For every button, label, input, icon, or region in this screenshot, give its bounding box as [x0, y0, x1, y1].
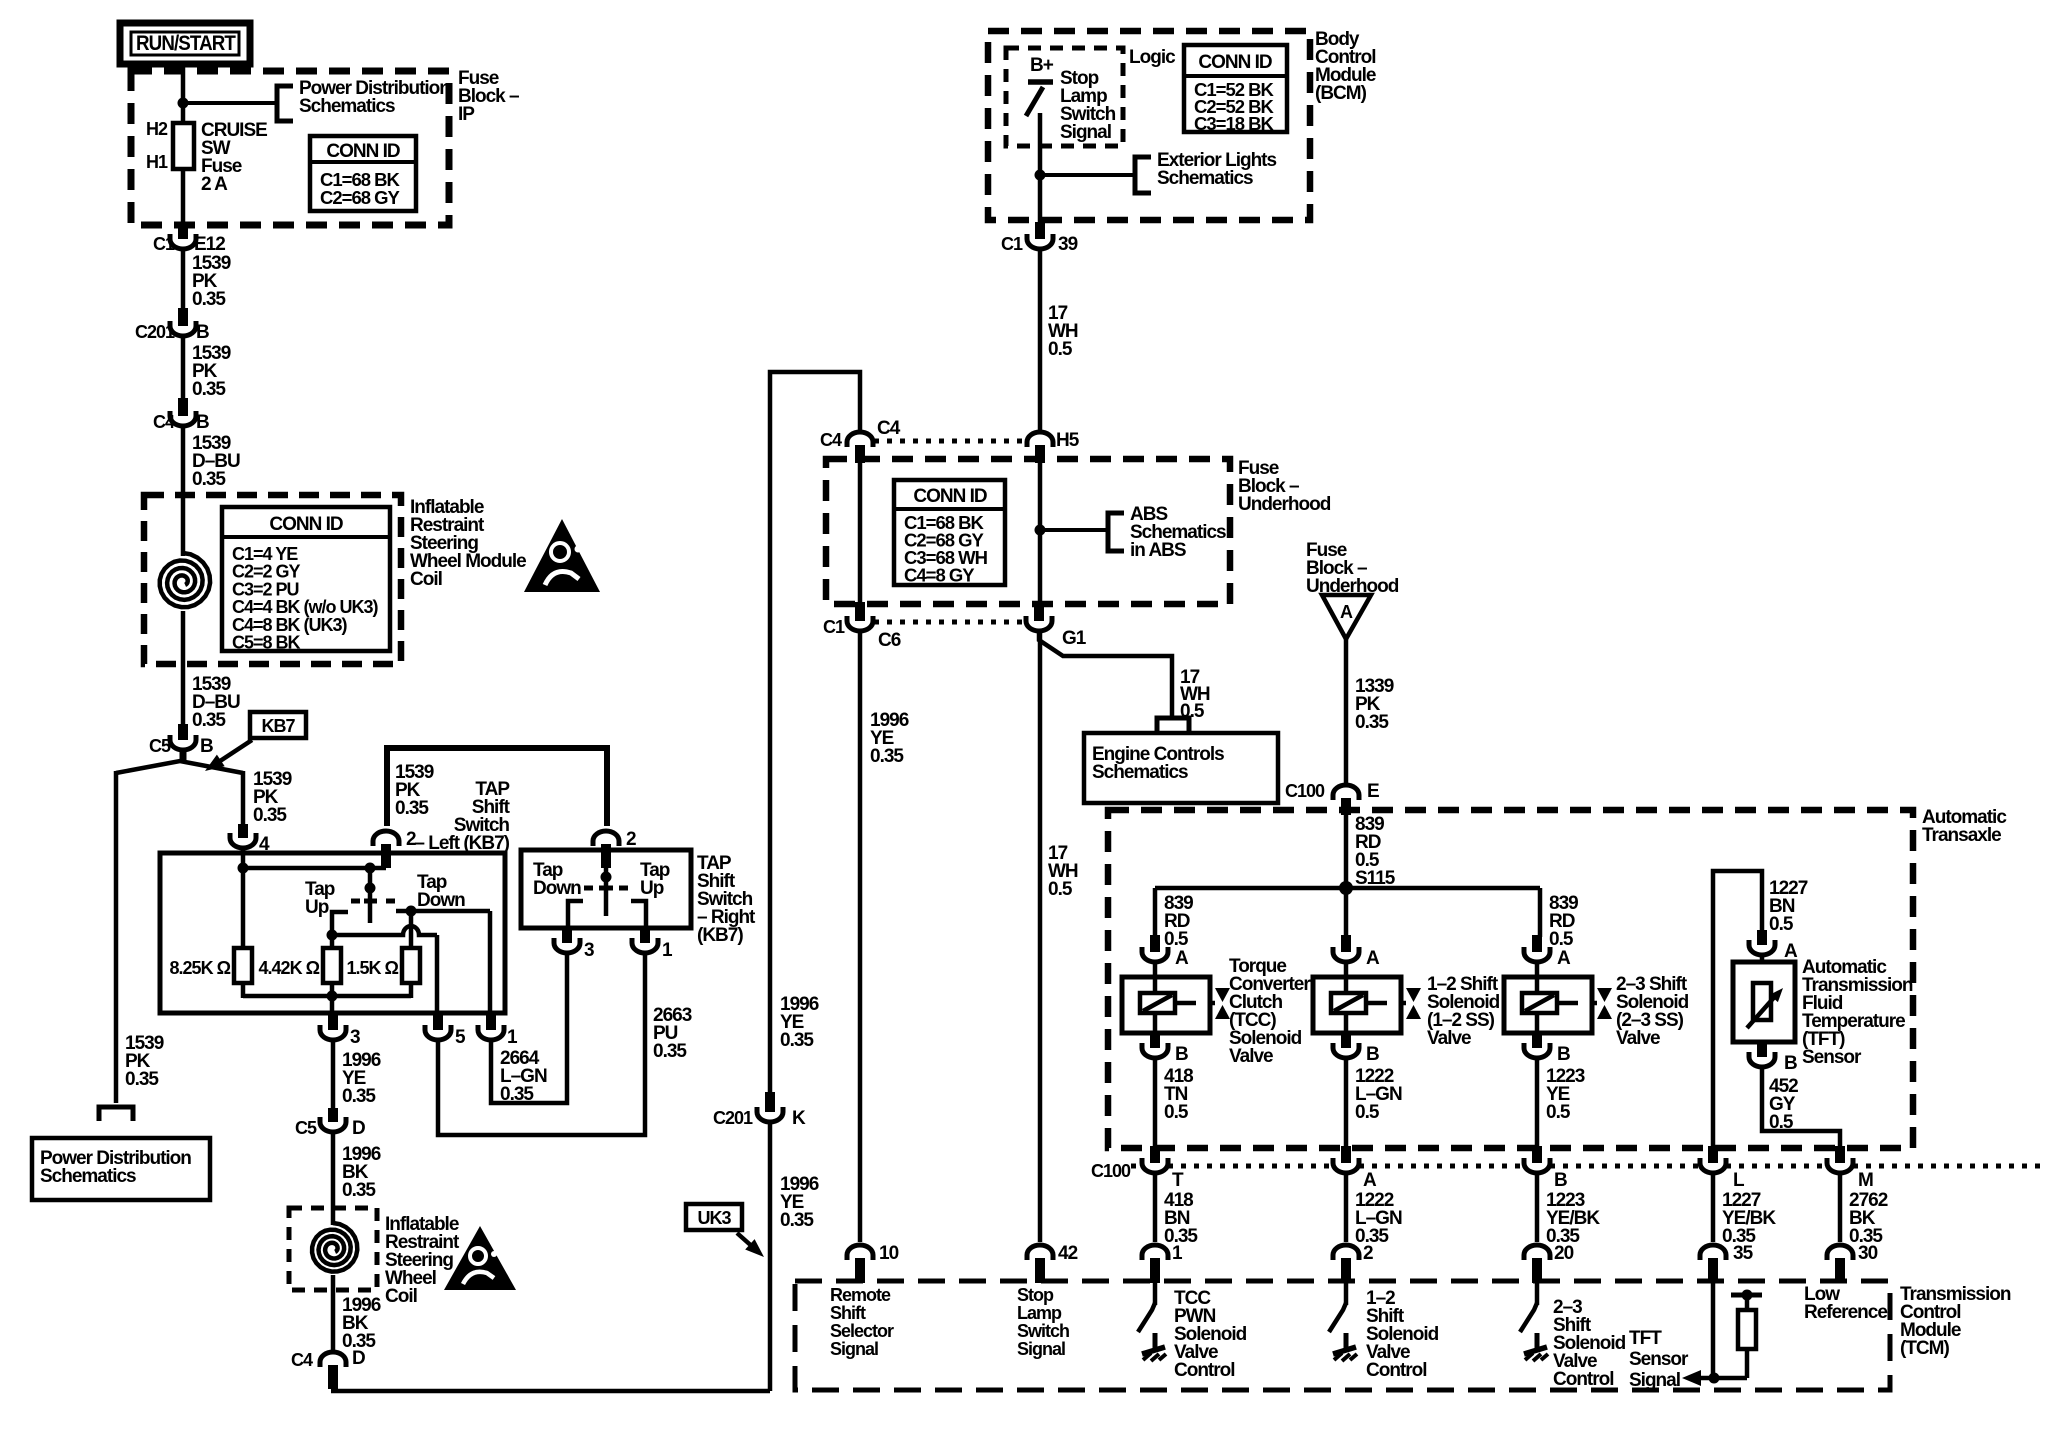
- Transmission Control Module dashed box: [795, 1281, 1890, 1390]
- connector C4 (harness pair): [847, 432, 873, 447]
- svg-text:35: 35: [1733, 1243, 1754, 1264]
- TFT signal arrow: [1698, 1376, 1747, 1381]
- svg-text:Control: Control: [1553, 1369, 1614, 1390]
- svg-text:Schematics: Schematics: [1092, 762, 1188, 783]
- svg-text:0.35: 0.35: [253, 805, 287, 826]
- male stub pin 10: [855, 1258, 865, 1283]
- wire contact node to 1.5K resistor: [409, 911, 414, 948]
- svg-text:0.35: 0.35: [342, 1086, 376, 1107]
- svg-text:Switch: Switch: [1017, 1321, 1069, 1341]
- svg-text:0.35: 0.35: [500, 1084, 534, 1105]
- svg-text:1.5K Ω: 1.5K Ω: [347, 958, 399, 978]
- svg-text:CONN ID: CONN ID: [1198, 52, 1272, 73]
- svg-text:3: 3: [584, 940, 594, 961]
- connector pin 3 right: [554, 938, 580, 953]
- svg-text:0.35: 0.35: [780, 1030, 814, 1051]
- connector C100 M: [1827, 1158, 1853, 1173]
- male stub into C5: [178, 724, 188, 740]
- wire 452 GY 0.5 to C100 M: [1762, 1069, 1840, 1146]
- wire 839 RD 0.5 from C100 E: [1344, 815, 1349, 952]
- connector C1 C6: [847, 616, 873, 631]
- svg-text:C4: C4: [291, 1350, 313, 1370]
- svg-text:H5: H5: [1056, 430, 1080, 451]
- svg-text:C3=18 BK: C3=18 BK: [1194, 113, 1275, 134]
- SIR coil dashed box: [144, 495, 401, 664]
- rail junction node: [327, 991, 338, 1002]
- svg-text:0.5: 0.5: [1048, 879, 1073, 900]
- right tap up contact: [631, 901, 646, 930]
- svg-text:CONN ID: CONN ID: [269, 514, 343, 535]
- connector pin 1 left: [478, 1025, 504, 1040]
- wire 17 WH 0.5 (G1 to engine controls): [1039, 633, 1172, 718]
- wire 1539 D-BU 0.35 (C4 to coil): [181, 428, 186, 556]
- 2-3 shift solenoid valve bowtie symbol: [1597, 988, 1612, 1002]
- connector pin 2 left: [373, 831, 399, 846]
- wire 2664 L-GN 0.35 (left pin1 to right pin3): [491, 955, 567, 1103]
- svg-text:K: K: [792, 1108, 806, 1129]
- svg-text:Coil: Coil: [410, 569, 442, 590]
- svg-text:0.5: 0.5: [1048, 339, 1073, 360]
- svg-text:Up: Up: [640, 878, 664, 899]
- resistor 8.25K: [234, 948, 252, 983]
- svg-text:B: B: [1366, 1044, 1379, 1065]
- svg-text:E: E: [1367, 781, 1379, 802]
- connector C201 K: [757, 1107, 783, 1122]
- wire RUN/START to fuse H2: [181, 64, 186, 123]
- wire 418 (TCC solenoid): [1153, 1060, 1158, 1148]
- connector C4 D: [320, 1352, 346, 1367]
- wire 839 RD 0.5 (2-3 branch): [1538, 888, 1543, 937]
- svg-text:0.35: 0.35: [192, 379, 226, 400]
- wire 2-3 shift solenoid coil to pin B: [1535, 1013, 1540, 1035]
- svg-text:20: 20: [1554, 1243, 1574, 1264]
- wire to exterior lights reference: [1040, 173, 1135, 177]
- svg-text:1: 1: [662, 940, 673, 961]
- svg-text:A: A: [1784, 941, 1798, 962]
- svg-text:Sensor: Sensor: [1802, 1047, 1862, 1068]
- connector TCM pin 30: [1827, 1245, 1853, 1260]
- svg-text:30: 30: [1858, 1243, 1878, 1264]
- connector TCM pin 20: [1524, 1245, 1550, 1260]
- svg-text:0.35: 0.35: [870, 746, 904, 767]
- svg-text:Control: Control: [1174, 1360, 1235, 1381]
- Fuse Block - IP dashed box: [131, 71, 449, 225]
- reference bracket ABS: [1108, 513, 1124, 551]
- connector TCM pin 2: [1333, 1245, 1359, 1260]
- connector TCM pin 35: [1700, 1245, 1726, 1260]
- wire 1996 BK to C201 riser: [331, 1389, 770, 1394]
- tap up switch common: [368, 868, 373, 923]
- male stub below C100 E: [1341, 798, 1351, 815]
- UK3 arrow: [737, 1233, 755, 1249]
- male stub into C4: [178, 398, 188, 416]
- KB7 arrow: [214, 740, 252, 765]
- svg-text:0.5: 0.5: [1549, 929, 1574, 950]
- svg-text:3: 3: [350, 1027, 360, 1048]
- svg-text:CONN ID: CONN ID: [326, 141, 400, 162]
- svg-text:4.42K Ω: 4.42K Ω: [259, 958, 320, 978]
- connector TFT pin B: [1749, 1052, 1775, 1067]
- svg-text:0.35: 0.35: [192, 289, 226, 310]
- svg-text:C4: C4: [820, 430, 842, 450]
- svg-text:5: 5: [455, 1027, 466, 1048]
- svg-text:T: T: [1172, 1170, 1184, 1191]
- wire TCC solenoid coil to pin B: [1153, 1013, 1158, 1035]
- wire 2762 BK 0.35: [1838, 1175, 1843, 1242]
- wire inside fuse block (left): [858, 463, 863, 606]
- wire inside fuse block (right): [1038, 463, 1043, 606]
- male stub into G1: [1034, 602, 1044, 621]
- male stub into C201 K: [765, 1092, 775, 1112]
- fuse block grid reference triangle A: [1322, 595, 1371, 639]
- svg-text:(TCM): (TCM): [1900, 1338, 1949, 1359]
- svg-text:TFT: TFT: [1629, 1328, 1662, 1349]
- 2-3 shift driver switch to ground: [1535, 1283, 1540, 1305]
- svg-text:C4: C4: [877, 418, 901, 439]
- svg-text:B+: B+: [1030, 55, 1054, 76]
- wire 1227 BN 0.5 top link: [1713, 871, 1762, 1146]
- svg-text:1: 1: [507, 1027, 518, 1048]
- wire rail to pin 3: [330, 996, 335, 1015]
- svg-text:A: A: [1340, 602, 1353, 622]
- reference bracket to power distribution schematics: [99, 1107, 133, 1121]
- svg-text:10: 10: [879, 1243, 899, 1264]
- svg-text:A: A: [1363, 1170, 1377, 1191]
- svg-text:Schematics: Schematics: [1157, 168, 1253, 189]
- dotted harness line C100: [1131, 1164, 1142, 1169]
- connector TCM pin 1: [1142, 1245, 1168, 1260]
- wire to ABS reference: [1040, 528, 1108, 532]
- svg-text:0.5: 0.5: [1546, 1102, 1571, 1123]
- connector C100 B: [1524, 1158, 1550, 1173]
- svg-text:A: A: [1366, 948, 1380, 969]
- svg-text:0.5: 0.5: [1164, 929, 1189, 950]
- wire 1996 BK 0.35 (C5-D to coil): [331, 1134, 336, 1225]
- male stub below H5: [1035, 445, 1045, 463]
- svg-text:0.35: 0.35: [1355, 712, 1389, 733]
- svg-text:Down: Down: [417, 890, 465, 911]
- wire 1539 PK 0.35 (C201 to C4): [181, 338, 186, 402]
- junction node exterior lights: [1035, 170, 1046, 181]
- svg-text:H2: H2: [146, 119, 168, 139]
- Fuse Block Underhood dashed box: [826, 459, 1230, 604]
- TFT thermistor symbol: [1753, 983, 1771, 1020]
- svg-text:0.5: 0.5: [1769, 914, 1794, 935]
- connector C100 A: [1333, 1158, 1359, 1173]
- svg-text:Underhood: Underhood: [1238, 494, 1331, 515]
- male stub into pin 4: [238, 824, 248, 838]
- 1-2 shift solenoid valve bowtie symbol: [1406, 988, 1421, 1002]
- svg-text:D: D: [352, 1118, 365, 1139]
- svg-text:1: 1: [1172, 1243, 1183, 1264]
- svg-text:C1: C1: [823, 617, 845, 637]
- splice S115 rail: [1155, 886, 1540, 891]
- TCC PWN driver switch to ground: [1153, 1283, 1158, 1305]
- svg-text:0.5: 0.5: [1164, 1102, 1189, 1123]
- svg-text:39: 39: [1058, 234, 1078, 255]
- TFT sensor box: [1760, 957, 1765, 962]
- TCC solenoid valve bowtie symbol: [1215, 988, 1230, 1002]
- right tap down contact: [568, 901, 583, 930]
- harness split below C5: [116, 761, 243, 773]
- svg-text:2 A: 2 A: [201, 174, 228, 195]
- male stub pin 1 left: [486, 1013, 496, 1030]
- connector C4 B: [170, 411, 196, 426]
- svg-text:C4=8 GY: C4=8 GY: [904, 565, 975, 586]
- svg-text:0.35: 0.35: [395, 798, 429, 819]
- power feed RUN/START box: [120, 23, 250, 64]
- dotted pair line C4-H5: [874, 439, 1026, 444]
- svg-text:0.35: 0.35: [780, 1210, 814, 1231]
- BCM logic dashed box: [1006, 48, 1123, 146]
- tap up contact: [332, 912, 348, 935]
- svg-text:– Left (KB7): – Left (KB7): [414, 833, 509, 854]
- TFT signal junction node: [1709, 1373, 1720, 1384]
- reference bracket exterior lights: [1135, 157, 1151, 193]
- KB7 option tag: [250, 712, 306, 738]
- connector C5 B: [170, 735, 196, 750]
- svg-text:H1: H1: [146, 152, 168, 172]
- svg-text:Lamp: Lamp: [1017, 1303, 1062, 1323]
- TAP shift switch right box: [521, 850, 691, 928]
- wire 1996 YE riser to C4: [770, 372, 860, 1094]
- male stub into C100 M: [1835, 1146, 1845, 1163]
- svg-text:Valve: Valve: [1427, 1028, 1471, 1049]
- svg-text:Selector: Selector: [830, 1321, 894, 1341]
- male stub into C1 39: [1035, 222, 1045, 239]
- male stub 2-3 shift solenoid pin B: [1532, 1031, 1542, 1048]
- svg-text:A: A: [1175, 948, 1189, 969]
- svg-text:B: B: [200, 736, 213, 757]
- male stub pin 1 right: [640, 928, 650, 943]
- resistor 1.5K: [402, 948, 420, 983]
- resistor bottom rail: [241, 983, 246, 998]
- CONN ID table BCM: [1184, 45, 1287, 132]
- svg-text:B: B: [1784, 1053, 1797, 1074]
- wire 1539 PK 0.35 to power distribution: [114, 771, 119, 1103]
- svg-text:C201: C201: [713, 1108, 753, 1128]
- connector C100 L: [1700, 1158, 1726, 1173]
- wire 1539 PK 0.35 (C1 to C201): [181, 251, 186, 312]
- connector pin 10 TCM: [847, 1245, 873, 1260]
- connector pin 3 left: [320, 1025, 346, 1040]
- male stub into C100 T: [1150, 1146, 1160, 1163]
- connector C1 E12: [170, 234, 196, 249]
- svg-text:C100: C100: [1285, 781, 1325, 801]
- wire 1996 YE 0.35 (pin3 to C5-D): [331, 1042, 336, 1110]
- male stub into TFT A: [1757, 930, 1767, 945]
- svg-text:C5: C5: [295, 1118, 317, 1138]
- Body Control Module dashed box: [988, 31, 1310, 220]
- male stub TFT pin B: [1757, 1044, 1767, 1057]
- TCM internal pull-up tee: [1731, 1293, 1762, 1298]
- wire 1996 YE 0.35 (C6 to TCM pin 10): [858, 633, 863, 1242]
- male stub below C4: [855, 445, 865, 463]
- male stub into C100 A: [1341, 1146, 1351, 1163]
- connector pin 42 TCM: [1027, 1245, 1053, 1260]
- svg-text:B: B: [196, 412, 209, 433]
- connector TFT pin A: [1749, 940, 1775, 955]
- svg-text:B: B: [196, 322, 209, 343]
- Engine Controls Schematics box: [1084, 733, 1278, 803]
- svg-text:Shift: Shift: [830, 1303, 866, 1323]
- svg-text:8.25K Ω: 8.25K Ω: [170, 958, 231, 978]
- 1-2 shift solenoid valve box: [1344, 964, 1349, 993]
- male stub TCM pin 30: [1835, 1258, 1845, 1283]
- fuse CRUISE SW 2A: [173, 123, 194, 169]
- tap down contact and output wire: [396, 909, 490, 914]
- junction node on ignition feed: [178, 98, 189, 109]
- SIR coil dashed box (lower): [289, 1208, 377, 1290]
- Automatic Transaxle dashed box: [1108, 810, 1913, 1148]
- male stub TCM pin 2: [1341, 1258, 1351, 1283]
- junction node ABS branch: [1035, 525, 1046, 536]
- svg-text:C2=68 GY: C2=68 GY: [320, 187, 401, 208]
- svg-text:CONN ID: CONN ID: [913, 486, 987, 507]
- connector 2-3 shift solenoid pin A: [1524, 947, 1550, 962]
- male stub TCM pin 35: [1708, 1258, 1718, 1283]
- male stub pin 42: [1035, 1258, 1045, 1283]
- male stub TCM pin 1: [1150, 1258, 1160, 1283]
- wire 17 WH 0.5 (C1-39 to H5): [1038, 251, 1043, 432]
- tap up contact node: [327, 930, 338, 941]
- connector C5 D: [320, 1117, 346, 1132]
- 2-3 shift solenoid valve box: [1535, 964, 1540, 993]
- male stub into 2-3 shift solenoid pin A: [1532, 935, 1542, 952]
- connector G1: [1026, 616, 1052, 631]
- connector TCC solenoid pin A: [1142, 947, 1168, 962]
- connector TCC solenoid pin B: [1142, 1043, 1168, 1058]
- CONN ID table fuse block underhood: [894, 480, 1005, 585]
- male stub into C201: [178, 308, 188, 326]
- TFT sensor signal wire in TCM: [1711, 1283, 1716, 1378]
- svg-text:Remote: Remote: [830, 1285, 891, 1305]
- connector pin 5 left: [425, 1025, 451, 1040]
- male stub pin 2 left: [381, 844, 391, 868]
- male stub TCC solenoid pin B: [1150, 1031, 1160, 1048]
- svg-text:Valve: Valve: [1229, 1046, 1273, 1067]
- connector 1-2 shift solenoid pin A: [1333, 947, 1359, 962]
- connector pin 2 right: [593, 831, 619, 846]
- connector C201 B: [170, 321, 196, 336]
- svg-text:Signal: Signal: [1017, 1339, 1065, 1359]
- reference bracket power distribution: [277, 86, 293, 121]
- right gang dashed link: [584, 886, 593, 891]
- switch common node dot: [365, 883, 376, 894]
- svg-text:Coil: Coil: [385, 1286, 417, 1307]
- wire fuse H1 down: [181, 169, 186, 226]
- svg-text:C100: C100: [1091, 1161, 1131, 1181]
- svg-text:in ABS: in ABS: [1130, 540, 1186, 561]
- svg-text:(KB7): (KB7): [697, 925, 743, 946]
- connector 1-2 shift solenoid pin B: [1333, 1043, 1359, 1058]
- splice S115 node: [1339, 881, 1353, 895]
- connector C100 T: [1142, 1158, 1168, 1173]
- svg-text:M: M: [1858, 1170, 1873, 1191]
- connector pin 1 right: [632, 938, 658, 953]
- svg-text:0.35: 0.35: [653, 1041, 687, 1062]
- svg-text:0.35: 0.35: [192, 469, 226, 490]
- TCC solenoid solenoid coil symbol: [1140, 993, 1175, 1013]
- svg-text:IP: IP: [458, 104, 475, 125]
- svg-text:Signal: Signal: [1629, 1370, 1680, 1391]
- svg-text:Signal: Signal: [1060, 122, 1111, 143]
- tap down contact node: [406, 906, 417, 917]
- stop lamp switch lever: [1026, 87, 1043, 116]
- svg-text:Down: Down: [533, 878, 581, 899]
- wire 1223 (2-3 shift solenoid): [1535, 1060, 1540, 1148]
- svg-text:C6: C6: [878, 630, 901, 651]
- connector C1 39: [1027, 234, 1053, 249]
- male stub into C100 B: [1532, 1146, 1542, 1163]
- connector H5: [1027, 432, 1053, 447]
- male stub pin 3 left: [328, 1013, 338, 1030]
- wire 1227 YE/BK 0.35: [1711, 1175, 1716, 1242]
- wire to 8.25K resistor: [241, 868, 246, 948]
- svg-text:Schematics: Schematics: [299, 96, 395, 117]
- wire 1539 PK 0.35 loop to both switch pin 2: [387, 748, 607, 826]
- junction node switch common: [365, 863, 376, 874]
- SIR warning triangle (lower): [444, 1226, 516, 1290]
- svg-text:RUN/START: RUN/START: [136, 32, 236, 55]
- svg-text:C1: C1: [153, 234, 175, 254]
- 1-2 shift driver switch to ground: [1344, 1283, 1349, 1305]
- svg-text:0.5: 0.5: [1355, 1102, 1380, 1123]
- svg-text:G1: G1: [1062, 628, 1087, 649]
- steering wheel coil (lower) spiral: [312, 1223, 357, 1272]
- wire 2663 PU 0.35 (right pin1 to left pin5): [438, 955, 645, 1135]
- svg-text:0.35: 0.35: [192, 710, 226, 731]
- svg-text:Sensor: Sensor: [1629, 1349, 1689, 1370]
- stop lamp switch B+ terminal: [1028, 79, 1053, 85]
- svg-text:Transaxle: Transaxle: [1922, 825, 2001, 846]
- CONN ID table SIR coil: [222, 507, 390, 651]
- dotted pair line C6-G1: [874, 620, 1026, 625]
- svg-text:C201: C201: [135, 322, 175, 342]
- svg-text:C1: C1: [1001, 234, 1023, 254]
- svg-text:B: B: [1557, 1044, 1570, 1065]
- TCC solenoid valve box: [1153, 964, 1158, 993]
- wire 17 WH 0.5 (H5 to TCM pin 42): [1038, 633, 1043, 1242]
- wire 1223 to TCM: [1535, 1175, 1540, 1242]
- 1-2 shift solenoid solenoid coil symbol: [1331, 993, 1366, 1013]
- wire 1-2 shift solenoid coil to pin B: [1344, 1013, 1349, 1035]
- connector 2-3 shift solenoid pin B: [1524, 1043, 1550, 1058]
- wire branch to power distribution reference: [183, 101, 277, 105]
- resistor 4.42K: [323, 948, 341, 983]
- svg-text:B: B: [1175, 1044, 1188, 1065]
- wire 418 to TCM: [1153, 1175, 1158, 1242]
- wire TFT B: [1760, 1042, 1765, 1048]
- svg-text:2: 2: [626, 829, 636, 850]
- svg-text:42: 42: [1058, 1243, 1078, 1264]
- right switch common: [604, 850, 609, 916]
- reference bracket engine controls: [1157, 718, 1189, 731]
- svg-text:KB7: KB7: [261, 716, 295, 736]
- svg-text:C5=8 BK: C5=8 BK: [232, 633, 301, 653]
- TCM pull-up resistor: [1745, 1295, 1750, 1310]
- svg-text:Control: Control: [1366, 1360, 1427, 1381]
- svg-text:Reference: Reference: [1804, 1302, 1887, 1323]
- male stub below C4 D: [328, 1365, 338, 1389]
- internal supply wire: [243, 866, 386, 871]
- svg-text:Stop: Stop: [1017, 1285, 1054, 1305]
- male stub pin 2 right: [601, 844, 611, 868]
- male stub into 1-2 shift solenoid pin A: [1341, 935, 1351, 952]
- svg-text:C4: C4: [153, 412, 175, 432]
- connector pin 4: [230, 833, 256, 848]
- connector C100 E: [1333, 785, 1359, 800]
